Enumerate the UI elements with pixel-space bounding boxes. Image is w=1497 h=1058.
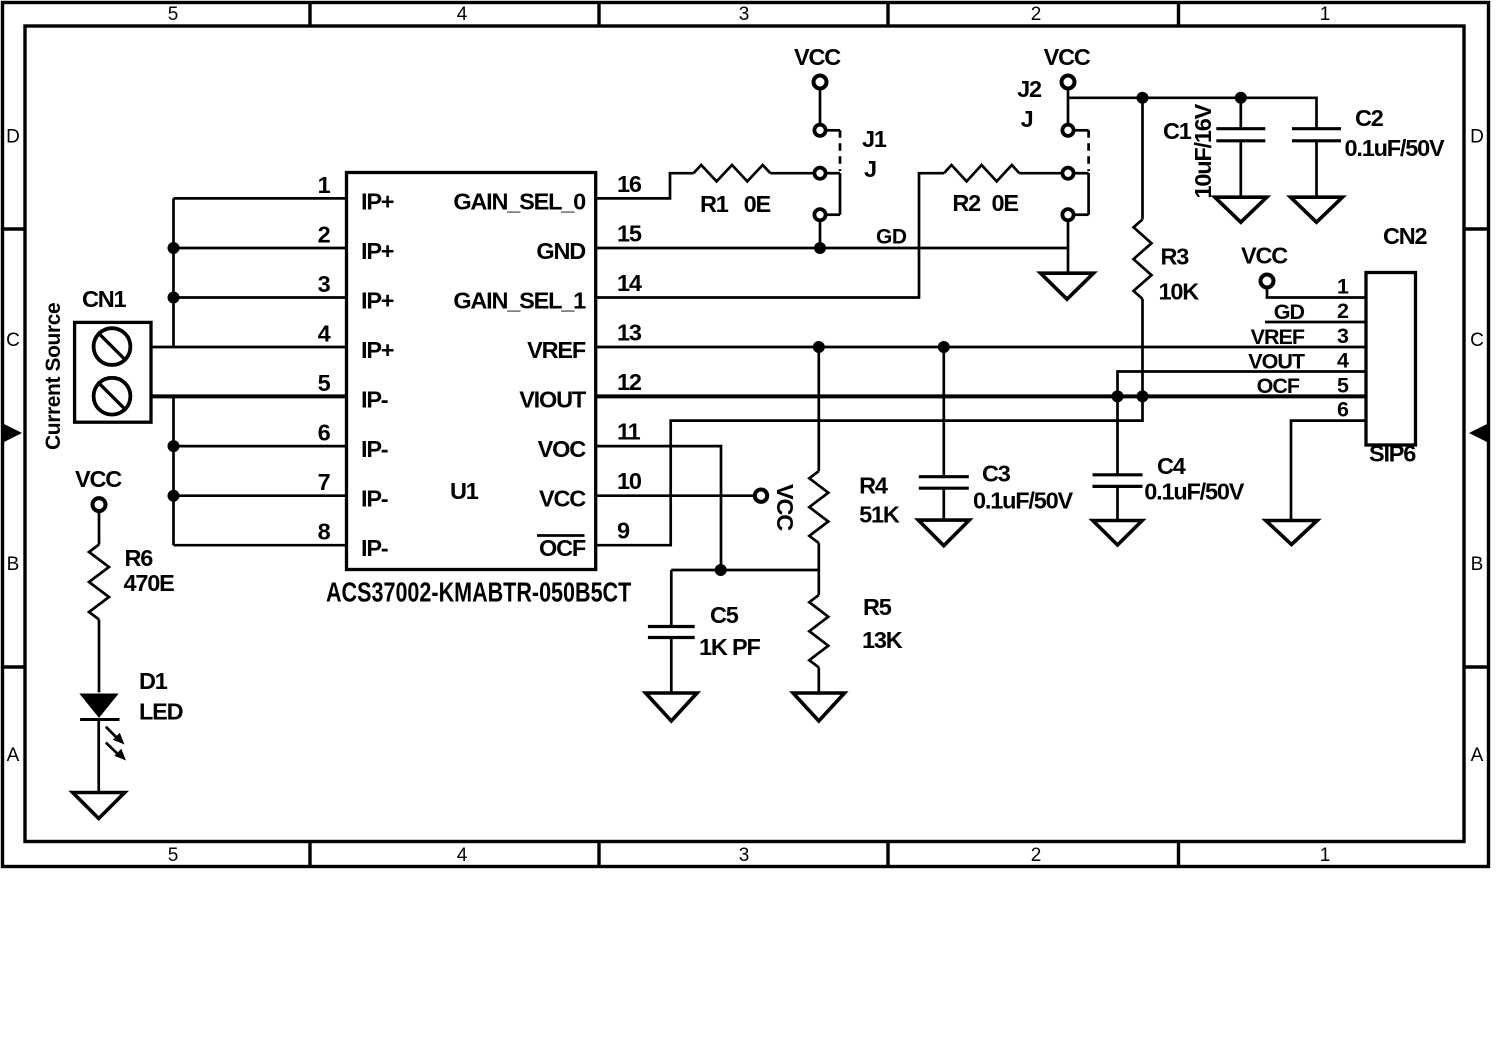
svg-text:D: D (6, 127, 20, 148)
svg-text:0.1uF/50V: 0.1uF/50V (1345, 135, 1445, 161)
svg-text:11: 11 (617, 419, 641, 445)
capacitor C1 10uF/16V (1163, 98, 1265, 199)
capacitor C3 0.1uF/50V (919, 347, 1074, 520)
svg-text:C4: C4 (1157, 453, 1186, 479)
svg-text:VOUT: VOUT (1248, 350, 1305, 374)
wire to U1 pin 8 (174, 544, 347, 547)
wire IP- bus vertical (172, 396, 175, 545)
svg-text:0.1uF/50V: 0.1uF/50V (1144, 479, 1244, 505)
wire GD to CN2 pin2 (1265, 300, 1366, 324)
svg-text:C1: C1 (1163, 118, 1192, 144)
svg-text:IP+: IP+ (361, 337, 394, 363)
svg-text:VCC: VCC (772, 484, 798, 531)
wire VOUT branch to CN2 pin4 (1118, 372, 1367, 397)
svg-text:5: 5 (168, 845, 179, 866)
svg-text:VIOUT: VIOUT (519, 386, 587, 412)
capacitor C2 0.1uF/50V (1292, 105, 1445, 197)
resistor R1 0E (694, 165, 771, 217)
ground under C3 (918, 520, 969, 546)
svg-text:GND: GND (536, 238, 585, 264)
wire divider midpoint (671, 569, 819, 572)
svg-text:IP-: IP- (361, 386, 388, 412)
svg-text:14: 14 (617, 270, 642, 296)
svg-text:OCF: OCF (1257, 374, 1300, 398)
wire to U1 pin 2 (174, 247, 347, 250)
svg-text:IP-: IP- (361, 436, 388, 462)
svg-text:VCC: VCC (1241, 243, 1288, 269)
svg-text:J: J (1021, 106, 1033, 132)
ground under C1 (1215, 197, 1267, 222)
wire to U1 pin 6 (174, 445, 347, 448)
svg-text:IP-: IP- (361, 535, 388, 561)
svg-text:A: A (7, 745, 20, 766)
svg-text:4: 4 (457, 4, 468, 25)
power VCC at CN2 pin1 (1241, 243, 1366, 298)
svg-text:C5: C5 (710, 602, 739, 628)
svg-text:10K: 10K (1159, 278, 1200, 304)
svg-text:3: 3 (739, 845, 750, 866)
svg-text:4: 4 (1337, 349, 1349, 373)
svg-text:1: 1 (318, 172, 331, 198)
op-amp U1 ACS37002-KMABTR-050B5CT current sensor IC (326, 173, 631, 609)
svg-text:CN1: CN1 (82, 286, 127, 312)
ground under CN2 pin6 (1266, 521, 1317, 545)
wire U1 pin16 to R1 (596, 173, 694, 198)
connector CN2 SIP6 (1366, 223, 1428, 467)
wire CN1-1 to U1 pin 4 (151, 346, 347, 349)
wire VOC U1 pin11 to divider (596, 446, 721, 570)
svg-text:7: 7 (318, 469, 331, 495)
svg-text:J1: J1 (862, 126, 887, 152)
jumper J2 (1017, 76, 1088, 220)
svg-text:R3: R3 (1161, 244, 1190, 270)
svg-text:B: B (7, 554, 20, 575)
svg-text:2: 2 (1337, 299, 1349, 323)
LED D1 (79, 668, 182, 761)
ground under C4 (1093, 521, 1142, 546)
power VCC for J1 (794, 44, 841, 88)
svg-text:0E: 0E (992, 190, 1019, 216)
ground under D1 (73, 793, 125, 819)
capacitor C4 0.1uF/50V (1093, 396, 1245, 520)
svg-text:2: 2 (318, 222, 331, 248)
svg-text:1: 1 (1320, 4, 1331, 25)
svg-text:VCC: VCC (1044, 44, 1091, 70)
wire U1 pin15 GND net (596, 247, 1068, 250)
svg-text:IP-: IP- (361, 486, 388, 512)
svg-text:J: J (864, 156, 876, 182)
svg-text:12: 12 (617, 369, 642, 395)
svg-text:5: 5 (1337, 373, 1349, 397)
power VCC at U1 pin10 (596, 484, 798, 531)
svg-text:GD: GD (876, 226, 907, 249)
svg-text:D: D (1470, 127, 1484, 148)
wire IP+ bus vertical (172, 198, 175, 347)
junction dots on IP+ bus (168, 242, 180, 304)
svg-text:GAIN_SEL_0: GAIN_SEL_0 (453, 188, 586, 214)
svg-text:4: 4 (318, 321, 331, 347)
junction dot VOC/divider (715, 564, 727, 576)
svg-text:6: 6 (1337, 398, 1349, 422)
svg-text:R5: R5 (863, 594, 892, 620)
svg-text:5: 5 (168, 4, 179, 25)
svg-text:VREF: VREF (1251, 325, 1305, 349)
resistor R5 13K (809, 570, 902, 693)
svg-text:B: B (1471, 554, 1484, 575)
junction dots on IP- bus (168, 440, 180, 502)
svg-text:16: 16 (617, 171, 642, 197)
svg-text:15: 15 (617, 221, 642, 247)
svg-text:ACS37002-KMABTR-050B5CT: ACS37002-KMABTR-050B5CT (326, 577, 631, 608)
capacitor C5 1K PF (648, 570, 761, 693)
power VCC for R6 (75, 466, 122, 511)
wire VCC rail J2 to C2 (1068, 98, 1317, 129)
wire VCC to J2 (1067, 89, 1070, 123)
svg-text:13: 13 (617, 320, 642, 346)
svg-text:6: 6 (318, 420, 331, 446)
U1 left pin numbers 1-8 (318, 172, 331, 545)
svg-text:GD: GD (1274, 300, 1305, 324)
wire VREF U1 pin13 to CN2 pin3 (596, 346, 1366, 349)
svg-text:3: 3 (318, 271, 331, 297)
svg-text:R6: R6 (125, 545, 154, 571)
svg-text:IP+: IP+ (361, 238, 394, 264)
svg-text:VCC: VCC (794, 44, 841, 70)
svg-text:0E: 0E (744, 191, 771, 217)
resistor R3 10K (1134, 98, 1200, 397)
wire VIOUT U1 pin12 to CN2 pin5 (thick) (596, 394, 1366, 398)
ground under C2 (1291, 197, 1343, 222)
svg-text:3: 3 (1337, 324, 1349, 348)
svg-text:A: A (1471, 745, 1484, 766)
U1 right pin numbers 16-9 (617, 171, 642, 544)
svg-text:R2: R2 (952, 190, 981, 216)
wire R1 to J1 (770, 172, 812, 175)
connector CN1 screw terminal (75, 286, 151, 422)
svg-text:2: 2 (1031, 4, 1042, 25)
ground under C5 (646, 693, 697, 721)
svg-text:470E: 470E (124, 570, 175, 596)
svg-text:D1: D1 (139, 668, 168, 694)
svg-text:VCC: VCC (75, 466, 122, 492)
ground under J2 (1041, 273, 1094, 299)
resistor R4 51K (809, 347, 900, 570)
junction dots on VREF (813, 341, 950, 353)
wire U1 pin14 to R2 (596, 173, 944, 297)
wire CN1-2 to U1 pin 5 (thick) (151, 394, 347, 398)
wire VCC to J1 (819, 89, 822, 123)
svg-text:OCF: OCF (539, 535, 586, 561)
svg-text:1: 1 (1337, 275, 1349, 299)
power VCC for J2 (1044, 44, 1091, 88)
svg-text:SIP6: SIP6 (1369, 441, 1416, 467)
wire to U1 pin 3 (174, 296, 347, 299)
svg-text:U1: U1 (450, 478, 479, 504)
svg-text:C: C (6, 330, 20, 351)
svg-text:IP+: IP+ (361, 288, 394, 314)
wire to U1 pin 7 (174, 494, 347, 497)
svg-text:IP+: IP+ (361, 188, 394, 214)
svg-text:C2: C2 (1355, 105, 1384, 131)
wire CN2 pin6 to ground (1291, 421, 1366, 521)
svg-text:10: 10 (617, 468, 642, 494)
svg-text:0.1uF/50V: 0.1uF/50V (973, 488, 1073, 514)
svg-text:R4: R4 (859, 472, 888, 498)
svg-text:Current Source: Current Source (42, 303, 65, 450)
resistor R6 470E (89, 545, 174, 620)
wire R6 to D1 (98, 620, 101, 693)
wire VCC to R6 (98, 512, 101, 545)
wire to U1 pin 1 (174, 197, 347, 200)
svg-text:R1: R1 (700, 191, 729, 217)
svg-text:1: 1 (1320, 845, 1331, 866)
svg-text:VOC: VOC (538, 436, 587, 462)
wire D1 to ground (97, 719, 100, 793)
junction dots on VIOUT (1112, 390, 1149, 402)
svg-text:GAIN_SEL_1: GAIN_SEL_1 (453, 288, 586, 314)
svg-text:VCC: VCC (539, 486, 586, 512)
junction dot J1/GND wire (814, 242, 826, 254)
svg-text:13K: 13K (862, 627, 903, 653)
resistor R2 0E (944, 165, 1019, 216)
wire J2 pad3 down to ground (1067, 222, 1070, 273)
svg-text:LED: LED (139, 699, 183, 725)
svg-text:J2: J2 (1017, 76, 1042, 102)
svg-text:5: 5 (318, 370, 331, 396)
svg-text:8: 8 (318, 519, 331, 545)
svg-text:3: 3 (739, 4, 750, 25)
wire OCF U1 pin9 to R3 bottom (596, 396, 1143, 545)
wire R2 to J2 (1019, 172, 1061, 175)
junction dots on VCC rail (1137, 92, 1247, 104)
svg-text:2: 2 (1031, 845, 1042, 866)
wire J1 pad3 to GND net (819, 222, 822, 248)
svg-text:10uF/16V: 10uF/16V (1190, 103, 1216, 198)
jumper J1 (814, 125, 886, 221)
svg-text:51K: 51K (859, 502, 900, 528)
svg-text:C3: C3 (982, 461, 1011, 487)
svg-text:VREF: VREF (527, 337, 586, 363)
ground under R5 (793, 693, 844, 721)
CN2 pin numbers 1-6 (1337, 275, 1349, 422)
svg-text:9: 9 (617, 518, 630, 544)
svg-text:4: 4 (457, 845, 468, 866)
svg-text:CN2: CN2 (1383, 223, 1428, 249)
svg-text:C: C (1470, 330, 1484, 351)
svg-text:1K PF: 1K PF (699, 634, 760, 660)
